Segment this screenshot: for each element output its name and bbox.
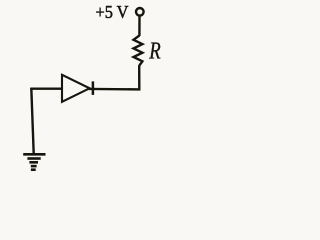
wire: left horizontal to diode anode: [30, 87, 62, 89]
wire: terminal to resistor top: [138, 16, 141, 36]
terminal circle: [136, 8, 144, 16]
ground symbol bar 3: [29, 161, 38, 164]
ground symbol bar 2: [27, 157, 40, 160]
svg-text:+5 V: +5 V: [96, 2, 129, 22]
wire: left vertical down to ground: [31, 88, 33, 154]
diode D triangle: [62, 75, 90, 102]
ground symbol bar 1: [23, 153, 45, 156]
resistor R: [134, 36, 143, 66]
diode cathode bar: [92, 81, 95, 95]
svg-text:R: R: [148, 38, 161, 64]
ground symbol bar 4: [31, 165, 37, 168]
wire: horizontal run diode cathode to resistor branch: [89, 88, 141, 91]
ground symbol bar 5: [31, 168, 36, 171]
wire: resistor bottom to node: [138, 66, 141, 91]
